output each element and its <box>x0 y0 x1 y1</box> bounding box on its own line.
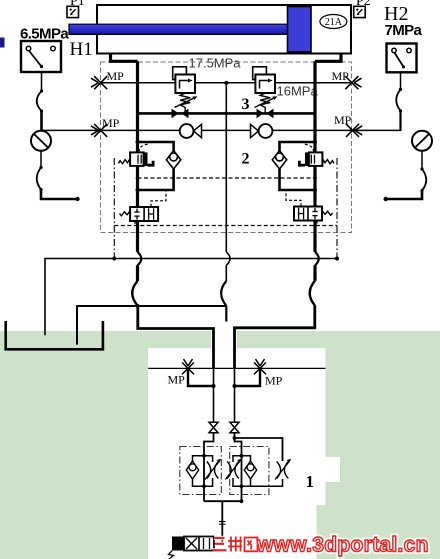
node middle on line A <box>224 81 228 85</box>
pilot line V2 (dashed) <box>303 144 314 152</box>
middle return vertical <box>225 83 227 252</box>
watermark char 三 <box>213 537 258 552</box>
check branch right (bypass around cartridge V2) <box>280 142 316 190</box>
dash-dot box right cell <box>230 447 269 495</box>
crossover hop H1 over drain bus <box>138 252 142 265</box>
main line H2 below hop <box>313 265 316 280</box>
lower block MP line <box>148 367 325 369</box>
pressure gauge G1 <box>31 131 51 151</box>
main line H1 below hop <box>136 265 139 281</box>
solenoid V1 <box>144 152 148 166</box>
wire left into block <box>204 433 214 502</box>
svg-text:MP: MP <box>102 116 120 130</box>
label 21A ellipse <box>320 15 347 29</box>
node left cell top <box>202 454 206 458</box>
spring PV1 <box>120 211 131 216</box>
node right cell top <box>240 454 244 458</box>
wire H1 to lower block <box>138 306 214 369</box>
wire to gauge port cap left <box>41 190 77 200</box>
svg-text:MP: MP <box>265 374 283 388</box>
block bottom line <box>204 500 242 502</box>
shutoff valve right <box>230 422 239 432</box>
node pilot crossline left <box>136 176 140 180</box>
relief valve RV1 spring and adjustment <box>175 93 198 113</box>
pilot crossline (dashed) y=178 <box>138 177 316 179</box>
main line H2 vertical mid <box>313 166 316 207</box>
hose arc left column upper <box>37 91 42 111</box>
check valve CV2 (diamond) <box>272 151 286 170</box>
node branch left top <box>136 140 140 144</box>
line B (test line y=130.4) <box>42 129 401 131</box>
node branch right top <box>313 140 317 144</box>
cartridge valve V2 body <box>309 152 323 166</box>
main line H2 vertical lower <box>313 221 316 253</box>
coupling right on crossline <box>257 109 274 119</box>
drain stub PV1 (dashed) <box>134 221 136 226</box>
wire below gauge G1 <box>40 151 42 168</box>
wire to gauge G1 <box>40 111 43 131</box>
node middle on crossline <box>224 112 228 116</box>
pressure switch S1 6.5MPa <box>21 41 61 72</box>
relief valve RV2 16MPa pilot box <box>253 67 267 80</box>
wire from switch S1 <box>41 72 43 91</box>
right cell check branch <box>242 456 251 487</box>
outlet wire down <box>221 501 223 536</box>
crossline with couplings y=113.4 <box>138 112 316 115</box>
spring V1 <box>119 159 131 164</box>
line to outer restrictor <box>235 438 283 461</box>
green forum background band <box>0 331 440 559</box>
spring V2 <box>322 159 334 164</box>
check valve on line B left <box>180 124 202 138</box>
node H1 at tank line <box>136 304 140 308</box>
cylinder piston <box>288 7 312 53</box>
hose arc right column upper <box>396 89 400 110</box>
watermark char 网 <box>245 538 258 552</box>
svg-text:21A: 21A <box>325 17 343 28</box>
cartridge valve V1 body <box>130 152 144 166</box>
white channel for wires through green <box>211 331 237 349</box>
left cell check valve (diamond) <box>186 461 198 479</box>
svg-text:www.3dportal.cn: www.3dportal.cn <box>256 534 429 557</box>
solenoid V2 <box>305 152 309 166</box>
wire to gauge port cap right <box>386 191 422 200</box>
spring PV2 <box>322 210 333 215</box>
svg-text:17.5MPa: 17.5MPa <box>189 56 242 71</box>
node branch right bottom <box>313 188 317 192</box>
left cell check branch <box>193 456 205 487</box>
small attachment icon left <box>67 6 79 17</box>
hose arc right column lower <box>422 169 426 191</box>
svg-text:16MPa: 16MPa <box>277 84 319 99</box>
relief valve RV1 body <box>175 75 195 94</box>
solenoid V1 foot <box>148 161 155 167</box>
test point MP B-left <box>91 124 107 137</box>
shutoff valve left <box>209 422 218 432</box>
small attachment icon right <box>354 6 366 17</box>
node left cell bottom <box>202 484 206 488</box>
tap wire from MP lower-left <box>188 368 214 386</box>
main line H2 vertical upper <box>313 61 316 152</box>
main line H1 vertical upper <box>136 61 139 152</box>
drain stub PV2 (dashed) <box>316 221 318 226</box>
pressure gauge G2 <box>412 131 432 151</box>
bottom valve spring <box>169 551 174 559</box>
svg-text:MP: MP <box>168 372 186 386</box>
svg-text:H1: H1 <box>70 39 93 60</box>
relief valve RV2 body <box>255 75 275 94</box>
watermark char 維 <box>228 537 242 552</box>
white schematic box B (bottom strip) <box>148 505 317 559</box>
manifold boundary (chain line) <box>101 62 352 233</box>
right cell restrictor branch <box>233 456 242 487</box>
pilot line V1 (dashed) <box>139 144 150 152</box>
tank return line <box>77 306 226 345</box>
svg-text:MP: MP <box>107 69 125 83</box>
node drain left on bus <box>112 257 116 261</box>
tank <box>6 321 103 349</box>
relief valve RV1 17.5MPa pilot box <box>173 67 187 80</box>
cylinder piston rod <box>69 24 288 34</box>
rod end stub at left edge <box>0 38 5 48</box>
wire from hose to line B right riser <box>399 111 401 131</box>
hose arc left column lower <box>37 168 41 190</box>
coupling left on crossline <box>172 109 189 119</box>
bottom directional valve body <box>184 537 214 551</box>
wire H2 to lower block <box>235 305 315 368</box>
middle vertical below hop <box>225 265 227 281</box>
wire left down to shutoff <box>213 368 215 422</box>
node block bottom <box>240 499 244 503</box>
joint ticks on outlet wire <box>219 521 226 523</box>
test point MP lower-left <box>182 359 194 374</box>
wire right down to shutoff <box>234 368 236 422</box>
node right wire to restrictor line <box>233 436 237 440</box>
main line H1 vertical lower <box>136 221 139 252</box>
svg-text:3: 3 <box>242 96 250 113</box>
check valve CV1 (diamond) <box>166 151 180 170</box>
node tap left <box>212 384 216 388</box>
hose loop middle <box>221 281 226 306</box>
test point MP A-right <box>345 76 361 89</box>
drain collector line (dashed) y=225.5 <box>114 225 337 227</box>
left cell restrictor <box>205 459 221 480</box>
node branch left bottom <box>136 188 140 192</box>
solenoid V2 foot <box>298 161 305 167</box>
outer restrictor bottom line <box>242 479 283 486</box>
pilot line PV2 (dashed) <box>286 191 301 207</box>
white bump near label 1 <box>326 457 341 482</box>
bottom valve feed wire <box>214 537 222 544</box>
pilot line PV1 (dashed) <box>151 191 166 207</box>
svg-text:MP: MP <box>334 113 352 127</box>
hose loop H2 <box>310 281 315 306</box>
check valve on line B right <box>251 124 273 138</box>
node tap right <box>233 384 237 388</box>
pilot valve PV1 (2-position) <box>130 207 158 221</box>
node drain right on bus <box>335 257 339 261</box>
check branch left (bypass around cartridge V1) <box>138 142 174 190</box>
left cell restrictor branch <box>204 456 213 487</box>
svg-text:2: 2 <box>242 151 250 168</box>
right cell check valve (diamond) <box>244 461 256 479</box>
right cell restrictor <box>225 459 241 480</box>
hose loop H1 <box>132 281 137 306</box>
line A (gauge/relief line y=82.7) <box>101 82 352 84</box>
node right cell bottom <box>240 484 244 488</box>
test point MP A-left <box>91 76 107 89</box>
crossover hop H2 over drain bus <box>315 252 319 265</box>
dash-dot box left cell <box>180 447 222 495</box>
main line H1 vertical mid <box>136 166 139 207</box>
plugged stub below middle loop <box>225 306 227 322</box>
test point MP lower-right <box>254 359 266 374</box>
wire below gauge G2 <box>421 151 423 169</box>
hydraulic cylinder 21A body <box>97 5 351 54</box>
tap wire from MP lower-right <box>235 368 261 386</box>
svg-text:MP: MP <box>332 69 350 83</box>
svg-text:7MPa: 7MPa <box>385 22 423 39</box>
crossover hop middle over drain bus <box>226 252 230 265</box>
relief valve RV2 spring and adjustment <box>255 93 278 113</box>
node pilot crossline right <box>313 176 317 180</box>
drain riser right (chain) <box>336 158 338 259</box>
drain riser left (chain) <box>113 158 115 259</box>
cylinder right port wire <box>315 54 341 62</box>
white schematic box A (lower block) <box>148 348 326 505</box>
drain bus to tank <box>45 259 337 336</box>
test point MP B-right <box>346 124 362 137</box>
bottom directional valve solenoid <box>172 537 184 551</box>
pilot valve PV2 (2-position) <box>294 207 322 221</box>
svg-text:1: 1 <box>306 472 315 491</box>
pressure switch S2 7MPa <box>387 44 417 73</box>
outer restrictor <box>275 459 291 480</box>
wire from switch S2 <box>400 72 402 89</box>
cylinder left port wire <box>111 54 138 62</box>
wire right into block <box>235 433 242 502</box>
